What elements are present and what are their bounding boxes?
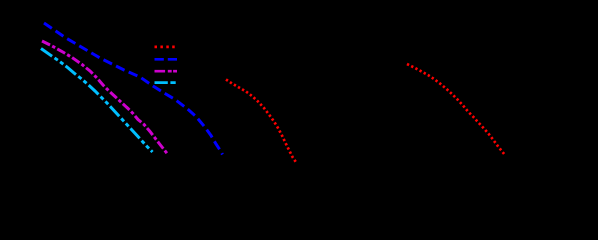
- legend sample: red dotted: [155, 46, 178, 49]
- curve red dotted (middle subplot): [226, 80, 297, 164]
- curve magenta dash-dot (left subplot): [42, 41, 168, 154]
- curve blue dashed (left subplot): [44, 23, 223, 155]
- legend sample: magenta dash-dot: [155, 70, 178, 73]
- chart: three BER-style curve groups on black background: [0, 0, 598, 189]
- legend sample: blue dashed: [155, 58, 178, 61]
- legend sample: cyan dash-dot: [155, 81, 177, 84]
- curve cyan dash-dot-dot (left subplot): [41, 49, 153, 153]
- curve red dotted (right subplot): [407, 64, 505, 155]
